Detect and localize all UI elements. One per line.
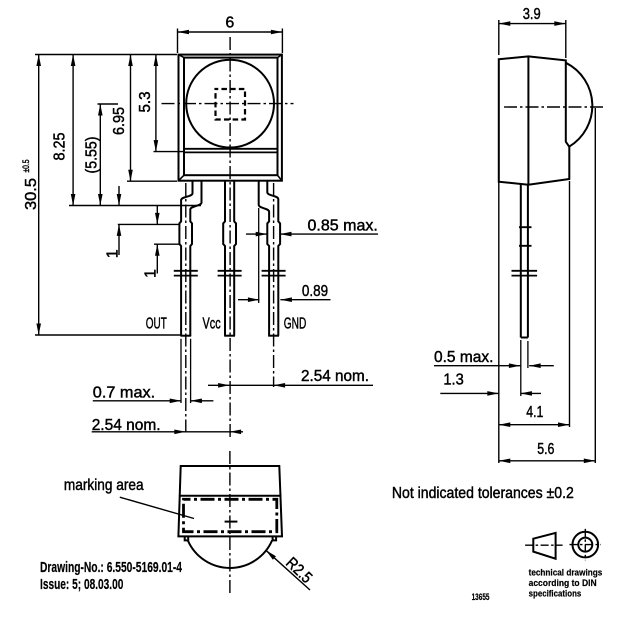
break ticks lead OUT (174, 271, 198, 276)
shoulder reference line C (154, 243, 181, 245)
dim 2.54 right line (208, 384, 373, 386)
lead OUT centerline (185, 183, 187, 433)
svg-text:1: 1 (105, 249, 122, 258)
dim 3.9 extension lines (499, 20, 566, 58)
svg-text:5.3: 5.3 (137, 91, 154, 112)
dim 5.3 line (155, 55, 157, 152)
bottom view body outline (178, 466, 282, 536)
projection symbol outer circle (573, 532, 599, 558)
dim 8.25 line (72, 55, 74, 206)
band line lower (184, 151, 278, 153)
side body left extension line (498, 182, 500, 463)
side lead tip step (521, 337, 528, 339)
dim 5.6 line (499, 460, 596, 462)
svg-text:Drawing-No.: 6.550-5169.01-4: Drawing-No.: 6.550-5169.01-4 (40, 559, 182, 576)
projection symbol crosshair vertical (584, 529, 586, 560)
dim 30.5 line (38, 55, 40, 336)
dim 3.9 line (499, 23, 566, 25)
svg-text:Vcc: Vcc (203, 316, 221, 333)
lead GND centerline (273, 183, 275, 387)
svg-text:OUT: OUT (146, 316, 167, 333)
FRONTVIEW (146, 37, 306, 437)
dim 6 extension lines (178, 29, 283, 54)
svg-text:2.54 nom.: 2.54 nom. (92, 417, 161, 434)
band line upper (184, 148, 278, 150)
vertical centerline front (229, 37, 231, 437)
shoulder reference line B (118, 223, 180, 225)
svg-text:0.5 max.: 0.5 max. (434, 349, 493, 366)
lead OUT tip edge extensions (181, 339, 191, 403)
projection symbol crosshair horizontal (570, 544, 602, 546)
package inner face front (184, 58, 278, 176)
bottom view right tab (273, 536, 277, 540)
corner bevel bottom-left (179, 175, 185, 181)
dim 4.1 line (499, 424, 570, 426)
corner bevel top-right (278, 55, 282, 58)
FRONTDIMS (21, 15, 378, 435)
lead Vcc body (223, 181, 236, 336)
svg-text:±0.5: ±0.5 (21, 160, 31, 173)
svg-text:13655: 13655 (472, 592, 490, 602)
package bottom extension line left (127, 180, 177, 182)
dim 0.89 line (238, 299, 331, 301)
svg-text:6.95: 6.95 (111, 107, 128, 135)
side body front edge ridge (527, 56, 529, 184)
dim 0.5 line (434, 365, 554, 367)
bottom view shoulder line (179, 495, 282, 497)
SIDEVIEW (499, 56, 604, 396)
svg-text:0.85 max.: 0.85 max. (308, 218, 378, 235)
package outer body front (179, 55, 282, 181)
lens circle (186, 60, 274, 148)
side lead body (521, 184, 528, 337)
dim 6.95 line (130, 55, 132, 182)
package top extension line left (35, 54, 177, 56)
marking area rect (184, 499, 277, 531)
dim R2.5 leader (266, 550, 310, 590)
svg-text:specifications: specifications (529, 589, 582, 600)
dim 6 line (178, 31, 283, 33)
svg-text:Not indicated tolerances ±0: Not indicated tolerances ±0.2 (392, 485, 574, 502)
svg-text:2.54 nom.: 2.54 nom. (301, 368, 369, 385)
chip dashed square (216, 89, 246, 120)
break ticks lead GND (262, 271, 286, 276)
svg-text:4.1: 4.1 (526, 404, 543, 421)
marking area center mark (225, 521, 238, 523)
svg-text:0.7 max.: 0.7 max. (93, 385, 155, 402)
jog reference line A (69, 205, 201, 207)
side body outline (499, 56, 570, 184)
side lead break ticks (512, 271, 538, 276)
lead OUT tip (180, 335, 191, 337)
dim 1 upper leader (118, 186, 120, 255)
NOTES (40, 485, 602, 602)
svg-text:(5.55): (5.55) (84, 137, 101, 174)
dim 0.7 line (93, 400, 214, 402)
svg-text:Issue: 5; 08.03.00: Issue: 5; 08.03.00 (40, 576, 123, 593)
lead Vcc tip (224, 335, 235, 337)
svg-text:3.9: 3.9 (523, 6, 541, 23)
projection symbol frustum centerline (525, 544, 563, 546)
bottom view left tab (185, 536, 189, 540)
svg-text:8.25: 8.25 (52, 132, 69, 160)
band extension line left (154, 151, 185, 153)
side lead edge extensions (521, 340, 528, 396)
dim 5.55 line (99, 104, 101, 206)
dim 0.85 line (246, 233, 378, 235)
marking area leader line (120, 497, 194, 518)
SIDEDIMS (434, 6, 595, 463)
svg-text:0.89: 0.89 (302, 283, 328, 300)
BOTTOMVIEW (64, 451, 315, 594)
svg-text:R2.5: R2.5 (282, 555, 315, 587)
side lead crimp ticks (519, 227, 532, 246)
svg-text:5.6: 5.6 (537, 441, 554, 458)
bottom view dome arc (188, 540, 272, 568)
lead OUT body (179, 181, 201, 336)
lead tip reference line (35, 334, 181, 336)
svg-text:1: 1 (142, 269, 159, 278)
svg-text:6: 6 (225, 15, 234, 32)
svg-text:1.3: 1.3 (443, 372, 463, 389)
projection symbol inner circle (578, 538, 592, 552)
corner bevel bottom-right (278, 175, 282, 181)
dim 1 lower leader (156, 206, 158, 274)
svg-text:according to DIN: according to DIN (529, 578, 597, 589)
side body right extension line (569, 181, 571, 427)
horizontal centerline front (162, 103, 294, 105)
side horizontal centerline (504, 106, 604, 108)
lead GND tip (268, 335, 279, 337)
dim 2.54 left line (92, 431, 243, 433)
dome apex extension line (594, 108, 596, 463)
lead GND body (259, 181, 280, 336)
bottom view centerline (229, 451, 231, 594)
break ticks lead Vcc (218, 271, 242, 276)
dim 5.55 top tick (98, 103, 119, 105)
svg-text:technical drawings: technical drawings (529, 568, 603, 579)
corner bevel top-left (179, 55, 185, 58)
side dome lens arc (566, 63, 592, 147)
dim 1.3 line (440, 392, 541, 394)
projection symbol frustum (533, 533, 555, 559)
svg-text:30.5: 30.5 (23, 178, 40, 210)
GND stub edge extension line (258, 208, 260, 303)
svg-text:GND: GND (284, 316, 307, 333)
svg-text:marking area: marking area (64, 477, 144, 494)
